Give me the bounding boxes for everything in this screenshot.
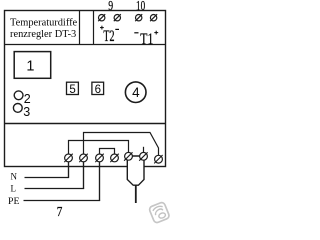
svg-text:Temperaturdiffe: Temperaturdiffe bbox=[10, 17, 78, 28]
svg-text:5: 5 bbox=[69, 84, 75, 96]
svg-text:4: 4 bbox=[132, 85, 140, 100]
svg-text:PE: PE bbox=[8, 196, 20, 206]
svg-text:9: 9 bbox=[108, 0, 113, 13]
svg-text:1: 1 bbox=[26, 59, 34, 75]
svg-text:3: 3 bbox=[23, 105, 30, 119]
svg-text:renzregler DT-3: renzregler DT-3 bbox=[10, 29, 76, 40]
svg-text:T1: T1 bbox=[140, 31, 153, 48]
svg-text:L: L bbox=[11, 184, 17, 194]
svg-text:7: 7 bbox=[57, 205, 63, 220]
svg-text:6: 6 bbox=[95, 84, 101, 96]
svg-text:T2: T2 bbox=[103, 28, 114, 45]
svg-text:10: 10 bbox=[136, 0, 145, 13]
svg-text:N: N bbox=[11, 172, 18, 182]
